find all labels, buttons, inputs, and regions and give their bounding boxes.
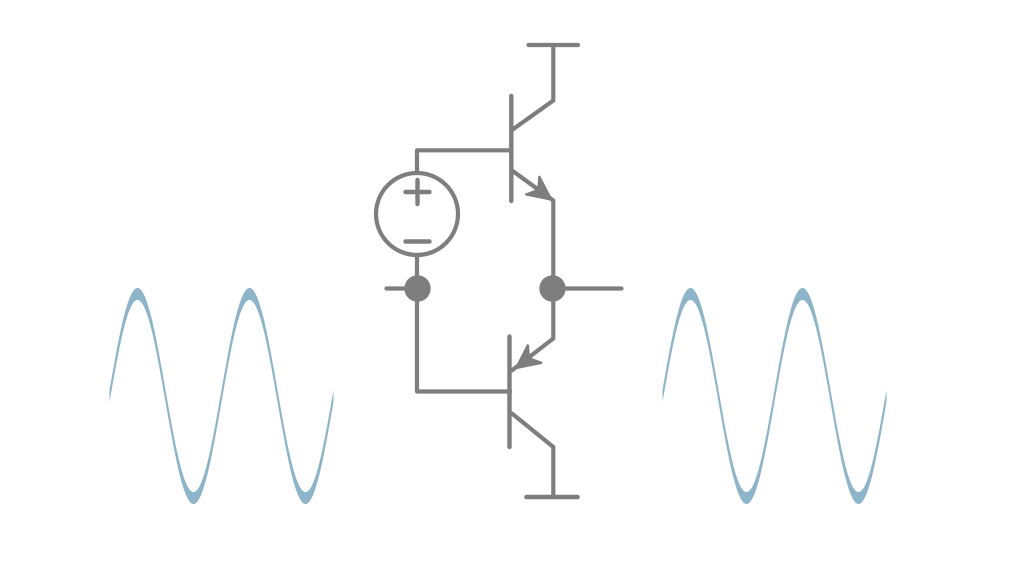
transistor Q2 emitter arrow <box>516 345 541 368</box>
V1 minus sign <box>406 239 430 243</box>
wire: node B to Q2 emitter <box>512 289 553 371</box>
transistor Q2 collector wire to ground <box>512 414 553 498</box>
node A junction dot <box>404 275 430 301</box>
wire: supply rail to Q1 collector <box>512 45 553 130</box>
output sine waveform <box>663 288 887 504</box>
wire: node A to Q2 base <box>417 289 510 392</box>
input sine waveform <box>110 288 334 504</box>
transistor Q1 emitter with wire to node B <box>512 171 553 289</box>
wire: V1 bottom to node A <box>415 255 419 289</box>
V1 plus sign <box>406 180 430 204</box>
wire: Q1 base to V1 top <box>417 150 511 173</box>
transistor Q1 base bar (NPN) <box>509 96 513 201</box>
transistor Q2 base bar (PNP) <box>507 337 511 448</box>
input stub wire at node A <box>387 286 418 290</box>
node B junction dot <box>539 275 565 301</box>
output wire from node B <box>553 286 622 290</box>
positive supply rail bar <box>529 43 579 47</box>
ground bar <box>527 495 578 500</box>
voltage source V1 circle <box>376 173 458 255</box>
transistor Q1 emitter arrow <box>526 177 551 200</box>
